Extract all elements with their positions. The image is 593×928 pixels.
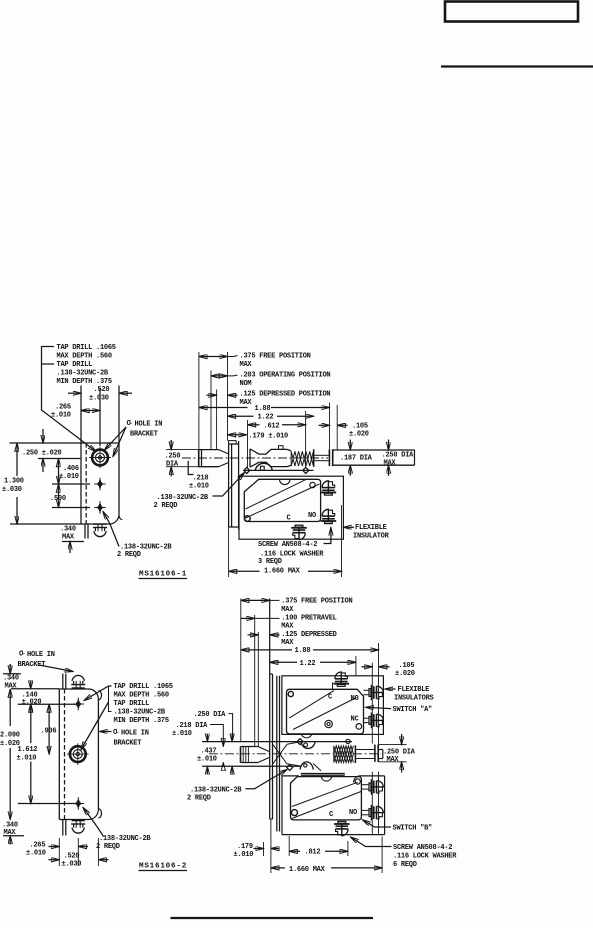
svg-text:±.030: ±.030 bbox=[2, 486, 22, 494]
svg-text:INSULATORS: INSULATORS bbox=[394, 695, 434, 703]
dim 1.612 +-.010 bbox=[17, 704, 77, 804]
dim .187 DIA bbox=[340, 440, 373, 476]
dimension .500 bbox=[50, 484, 90, 508]
plunger shaft left bbox=[241, 747, 270, 763]
dimension .265 +-.010 bbox=[51, 388, 100, 446]
spacer plate bbox=[277, 676, 280, 832]
svg-text:.203 OPERATING POSITION: .203 OPERATING POSITION bbox=[240, 372, 331, 380]
helical spring bbox=[291, 449, 314, 467]
svg-text:.250: .250 bbox=[165, 453, 181, 461]
svg-text:.138-32UNC-2B: .138-32UNC-2B bbox=[157, 494, 209, 502]
svg-text:L: L bbox=[129, 419, 133, 426]
terminal screw NC switch A bbox=[369, 713, 384, 729]
dim .250 DIA plunger bbox=[165, 440, 199, 476]
svg-text:.250 ±.020: .250 ±.020 bbox=[22, 450, 62, 458]
dim .105 +-.020 bbox=[319, 405, 369, 450]
lever roller dome A bbox=[297, 739, 350, 749]
dim .437 +-.010 bbox=[197, 734, 217, 774]
svg-text:.375 FREE POSITION: .375 FREE POSITION bbox=[281, 598, 352, 606]
svg-text:L: L bbox=[116, 728, 120, 735]
switch body A bbox=[287, 683, 364, 738]
svg-text:MAX: MAX bbox=[240, 361, 253, 369]
svg-text:NO: NO bbox=[349, 809, 357, 817]
dim .179 +-.010 bbox=[228, 432, 289, 440]
flexible insulator boot A bbox=[282, 676, 384, 735]
plunger hourglass bbox=[250, 446, 291, 467]
dimension .340 MAX bottom bbox=[60, 526, 84, 554]
plunger shaft left bbox=[199, 450, 228, 467]
helical spring bbox=[334, 745, 356, 763]
note centerline HOLE IN BRACKET bbox=[105, 419, 163, 457]
tapped hole 2 bbox=[73, 797, 84, 810]
svg-text:NC: NC bbox=[351, 715, 359, 723]
dim 1.88 bbox=[241, 647, 379, 655]
svg-text:±.010: ±.010 bbox=[189, 483, 209, 491]
svg-text:.250 DIA: .250 DIA bbox=[382, 452, 415, 460]
note .138-32UNC-2B 2 REQD bbox=[103, 512, 172, 560]
pivot dot left bbox=[244, 467, 250, 473]
tapped hole 1 bbox=[73, 698, 84, 711]
washer disc bbox=[329, 449, 332, 466]
svg-text:1.88: 1.88 bbox=[255, 405, 271, 413]
bracket lower tab bbox=[63, 820, 66, 836]
svg-text:.179 ±.010: .179 ±.010 bbox=[249, 432, 289, 440]
note .138-32UNC-2B 2 REQD bbox=[154, 473, 245, 511]
svg-text:±.010: ±.010 bbox=[17, 755, 37, 763]
terminal screw NO switch B bbox=[369, 779, 384, 795]
svg-text:.612: .612 bbox=[264, 422, 280, 430]
svg-text:.218 DIA: .218 DIA bbox=[176, 722, 209, 730]
svg-text:.437: .437 bbox=[201, 747, 217, 755]
note FLEXIBLE INSULATORS bbox=[385, 686, 434, 703]
plunger centerline bbox=[182, 457, 328, 459]
title MS16106-2 bbox=[139, 863, 188, 871]
terminal screw C switch A bbox=[333, 671, 349, 686]
dim 1.22 bbox=[228, 414, 314, 422]
svg-text:.105: .105 bbox=[352, 422, 368, 430]
flexible insulator boot B bbox=[282, 776, 385, 835]
svg-text:MAX: MAX bbox=[281, 639, 294, 647]
svg-text:.138-32UNC-2B: .138-32UNC-2B bbox=[57, 370, 109, 378]
dim 1.660 MAX bbox=[271, 820, 382, 874]
note SCREW AN508-4-2 bbox=[351, 837, 458, 869]
header rule line bbox=[441, 65, 593, 67]
svg-text:1.612: 1.612 bbox=[18, 746, 38, 754]
dim .140 +-.020 bbox=[11, 681, 76, 712]
svg-text:±.010: ±.010 bbox=[26, 850, 46, 858]
svg-text:.125 DEPRESSED POSITION: .125 DEPRESSED POSITION bbox=[240, 391, 331, 399]
plunger guide lines bbox=[202, 742, 352, 767]
svg-text:2 REQD: 2 REQD bbox=[96, 843, 120, 851]
svg-text:SCREW AN508-4-2: SCREW AN508-4-2 bbox=[258, 541, 317, 549]
svg-text:MAX: MAX bbox=[62, 533, 75, 541]
extension line plunger tip bbox=[240, 599, 242, 742]
pivot dot right bbox=[303, 467, 309, 473]
dim .125 DEPRESSED bbox=[248, 631, 337, 647]
dim .250 DIA MAX right bbox=[378, 734, 415, 773]
lever arm bbox=[244, 463, 314, 473]
svg-text:.138-32UNC-2B: .138-32UNC-2B bbox=[114, 709, 166, 717]
dim .906 bbox=[41, 704, 57, 754]
svg-text:MS16106-1: MS16106-1 bbox=[139, 571, 187, 579]
svg-text:.138-32UNC-2B: .138-32UNC-2B bbox=[99, 835, 151, 843]
dim 1.22 bbox=[270, 656, 356, 676]
screw at bracket bottom bbox=[93, 524, 107, 537]
shaft to washer bbox=[355, 750, 374, 759]
svg-text:.520: .520 bbox=[64, 853, 80, 861]
dim .612 bbox=[248, 411, 306, 468]
svg-text:MS16106-2: MS16106-2 bbox=[139, 863, 187, 871]
svg-text:MAX: MAX bbox=[240, 399, 253, 407]
svg-text:.906: .906 bbox=[41, 727, 57, 735]
flexible insulator boot bbox=[239, 476, 343, 539]
svg-text:HOLE IN: HOLE IN bbox=[135, 421, 163, 429]
svg-text:3 REQD: 3 REQD bbox=[258, 558, 282, 566]
svg-text:.125 DEPRESSED: .125 DEPRESSED bbox=[281, 631, 336, 639]
svg-text:.105: .105 bbox=[399, 662, 415, 670]
terminal screw shanks switch B bbox=[361, 785, 369, 815]
dim .179 +-.010 bbox=[234, 842, 280, 859]
tapped hole 2 bbox=[94, 501, 105, 514]
shaft between spring and washer bbox=[315, 455, 330, 460]
dim .125 DEPRESSED POSITION bbox=[207, 390, 331, 450]
switch body bbox=[244, 479, 320, 522]
bracket plate outline bbox=[59, 689, 101, 820]
svg-text:.265: .265 bbox=[55, 404, 71, 412]
svg-text:2.090: 2.090 bbox=[0, 732, 20, 740]
note FLEXIBLE INSULATOR bbox=[344, 524, 390, 540]
svg-text:.265: .265 bbox=[30, 842, 46, 850]
svg-text:SWITCH "A": SWITCH "A" bbox=[393, 706, 433, 714]
svg-text:.100 PRETRAVEL: .100 PRETRAVEL bbox=[281, 614, 336, 622]
dimension .250 +-.020 left bbox=[10, 429, 82, 472]
terminal screw C switch B bbox=[334, 821, 350, 836]
svg-text:.340: .340 bbox=[3, 675, 19, 683]
terminal screw NO bbox=[321, 480, 337, 495]
bushing hole in bracket bbox=[89, 447, 111, 469]
dim .520 +-.030 bottom bbox=[49, 838, 109, 869]
svg-text:±.030: ±.030 bbox=[62, 861, 82, 869]
terminal screw NC bbox=[321, 509, 337, 524]
dim .340 MAX bottom bbox=[2, 822, 24, 845]
dim .250 DIA MAX right bbox=[382, 440, 415, 476]
svg-text:±.010: ±.010 bbox=[172, 730, 192, 738]
svg-text:±.020: ±.020 bbox=[22, 698, 42, 706]
svg-text:MIN DEPTH .375: MIN DEPTH .375 bbox=[57, 378, 112, 386]
svg-text:BRACKET: BRACKET bbox=[130, 431, 158, 439]
dim .105 +-.020 bbox=[362, 662, 415, 678]
mounting plate bbox=[229, 441, 239, 530]
svg-text:.138-32UNC-2B: .138-32UNC-2B bbox=[190, 787, 242, 795]
svg-text:SCREW AN508-4-2: SCREW AN508-4-2 bbox=[393, 844, 452, 852]
svg-text:MAX: MAX bbox=[281, 606, 294, 614]
dim .218 +-.010 bbox=[188, 461, 209, 491]
title block box top right bbox=[445, 2, 578, 22]
svg-text:C: C bbox=[329, 811, 333, 819]
note SCREW AN508-4-2 bbox=[258, 528, 331, 567]
svg-text:6 REQD: 6 REQD bbox=[393, 861, 417, 869]
dim .218 DIA +-.010 bbox=[172, 722, 223, 766]
svg-text:NO: NO bbox=[351, 695, 359, 703]
svg-text:±.020: ±.020 bbox=[349, 431, 369, 439]
svg-text:1.88: 1.88 bbox=[295, 647, 311, 655]
svg-text:.250 DIA: .250 DIA bbox=[194, 711, 227, 719]
svg-text:1.22: 1.22 bbox=[258, 414, 274, 422]
svg-text:MAX: MAX bbox=[384, 460, 397, 468]
plunger shaft right bbox=[333, 450, 415, 465]
svg-text:FLEXIBLE: FLEXIBLE bbox=[355, 524, 387, 532]
note centerline HOLE IN BRACKET mid bbox=[100, 728, 149, 748]
svg-text:1.300: 1.300 bbox=[4, 478, 24, 486]
lever roller dome B bbox=[287, 762, 321, 771]
svg-text:SWITCH "B": SWITCH "B" bbox=[393, 824, 433, 832]
dim .100 PRETRAVEL bbox=[241, 614, 337, 630]
plunger hourglass bbox=[273, 742, 301, 766]
note SWITCH A bbox=[366, 706, 433, 714]
svg-text:INSULATOR: INSULATOR bbox=[353, 532, 390, 540]
svg-text:.375 FREE POSITION: .375 FREE POSITION bbox=[240, 353, 311, 361]
bracket lower tab bbox=[85, 524, 88, 539]
svg-text:MAX: MAX bbox=[387, 756, 400, 764]
svg-text:NOM: NOM bbox=[240, 380, 252, 388]
shaft stub right bbox=[378, 750, 383, 759]
svg-text:.812: .812 bbox=[305, 849, 321, 857]
svg-text:±.010: ±.010 bbox=[51, 412, 71, 420]
dimension 1.300 +-.030 bbox=[2, 443, 81, 524]
footer rule line bbox=[171, 917, 374, 919]
svg-text:L: L bbox=[22, 649, 26, 656]
svg-text:.116 LOCK WASHER: .116 LOCK WASHER bbox=[393, 853, 457, 861]
dim .265 +-.010 bottom bbox=[26, 838, 88, 866]
svg-text:HOLE IN: HOLE IN bbox=[121, 730, 149, 738]
terminal screw C bottom bbox=[291, 525, 307, 540]
svg-text:±.010: ±.010 bbox=[59, 473, 79, 481]
note TAP DRILL block bbox=[114, 683, 173, 725]
svg-text:MIN DEPTH .375: MIN DEPTH .375 bbox=[114, 717, 169, 725]
dim 2.090 +-.020 bbox=[0, 689, 20, 820]
washer disc bbox=[375, 745, 378, 762]
screw plane lines switch A bbox=[372, 643, 378, 745]
leader from TAP DRILL note to holes bbox=[81, 686, 112, 750]
dimension .520 +-.030 bbox=[68, 386, 132, 444]
bracket plate outline bbox=[81, 443, 122, 524]
svg-text:1.660 MAX: 1.660 MAX bbox=[289, 866, 326, 874]
svg-text:BRACKET: BRACKET bbox=[114, 740, 142, 748]
svg-text:±.030: ±.030 bbox=[89, 395, 109, 403]
title MS16106-1 bbox=[139, 571, 188, 579]
lever arm B bbox=[301, 774, 345, 776]
mounting plate bbox=[270, 599, 273, 820]
svg-text:.340: .340 bbox=[60, 526, 76, 534]
svg-text:TAP DRILL: TAP DRILL bbox=[114, 700, 150, 708]
dim .375 FREE POSITION bbox=[199, 352, 311, 450]
dim .340 MAX top bbox=[3, 664, 21, 691]
dim .203 OPERATING POSITION bbox=[211, 371, 330, 450]
svg-text:.187 DIA: .187 DIA bbox=[340, 455, 373, 463]
svg-text:.179: .179 bbox=[237, 843, 253, 851]
svg-text:MAX DEPTH .560: MAX DEPTH .560 bbox=[114, 692, 169, 700]
svg-text:2 REQD: 2 REQD bbox=[117, 551, 141, 559]
svg-text:MAX: MAX bbox=[281, 623, 294, 631]
dim 1.660 MAX bbox=[229, 505, 342, 577]
dimension .406 +-.010 bbox=[52, 459, 90, 485]
terminal screw shanks switch A bbox=[364, 690, 370, 722]
svg-text:TAP DRILL .1065: TAP DRILL .1065 bbox=[57, 344, 116, 352]
dim .812 bbox=[289, 836, 348, 857]
svg-text:FLEXIBLE: FLEXIBLE bbox=[398, 686, 430, 694]
svg-text:HOLE IN: HOLE IN bbox=[27, 651, 55, 659]
svg-text:C: C bbox=[328, 693, 332, 701]
screw plane lines switch B bbox=[372, 772, 378, 835]
terminal screw NO switch A bbox=[369, 685, 384, 701]
svg-text:TAP DRILL .1065: TAP DRILL .1065 bbox=[114, 683, 173, 691]
svg-text:TAP DRILL: TAP DRILL bbox=[57, 361, 93, 369]
extension line depressed bbox=[257, 632, 259, 747]
plunger centerline bbox=[209, 753, 381, 755]
svg-text:C: C bbox=[287, 515, 291, 523]
note .138-32UNC-2B 2 REQD bbox=[187, 770, 287, 803]
note centerline HOLE IN BRACKET top bbox=[18, 649, 74, 672]
svg-text:±.010: ±.010 bbox=[197, 755, 217, 763]
svg-text:MAX DEPTH .560: MAX DEPTH .560 bbox=[57, 353, 112, 361]
leader from TAP DRILL note to hole bbox=[42, 347, 97, 452]
svg-text:.406: .406 bbox=[63, 465, 79, 473]
note TAP DRILL block bbox=[57, 344, 116, 386]
tapped hole 1 bbox=[94, 478, 105, 491]
dim .375 FREE POSITION bbox=[241, 598, 353, 614]
dim .250 DIA elbow bbox=[194, 711, 233, 775]
svg-text:1.660 MAX: 1.660 MAX bbox=[264, 567, 301, 575]
svg-text:±.010: ±.010 bbox=[234, 851, 254, 859]
terminal screw NC switch B bbox=[369, 805, 384, 821]
note SWITCH B bbox=[363, 820, 433, 833]
dim 1.88 bbox=[199, 403, 330, 450]
svg-text:1.22: 1.22 bbox=[300, 660, 316, 668]
extension line pretravel bbox=[254, 615, 256, 747]
svg-text:2 REQD: 2 REQD bbox=[187, 795, 211, 803]
bracket upper tab bbox=[63, 674, 66, 690]
svg-text:.218: .218 bbox=[193, 475, 209, 483]
switch body B bbox=[291, 777, 362, 820]
svg-text:2 REQD: 2 REQD bbox=[154, 502, 178, 510]
svg-text:DIA: DIA bbox=[166, 461, 179, 469]
svg-text:NO: NO bbox=[308, 512, 316, 520]
svg-text:.520: .520 bbox=[94, 386, 110, 394]
screw at bracket top bbox=[71, 675, 85, 688]
bushing hole in bracket bbox=[67, 743, 89, 765]
svg-text:±.020: ±.020 bbox=[395, 670, 415, 678]
screw at bracket bottom bbox=[71, 821, 85, 834]
roller dome bbox=[255, 463, 272, 470]
note .138-32UNC-2B 2 REQD bottom bbox=[83, 808, 151, 852]
